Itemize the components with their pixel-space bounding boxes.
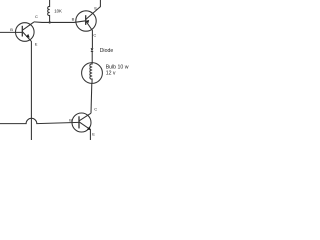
svg-text:C: C xyxy=(94,107,97,112)
svg-text:C: C xyxy=(93,33,96,38)
svg-text:12 v: 12 v xyxy=(106,70,116,76)
svg-text:C: C xyxy=(35,14,38,19)
svg-text:B: B xyxy=(69,118,72,123)
svg-text:10K: 10K xyxy=(54,9,62,14)
svg-text:B: B xyxy=(72,16,75,21)
svg-text:B: B xyxy=(10,27,13,32)
svg-text:E: E xyxy=(35,41,38,46)
svg-text:E: E xyxy=(94,6,97,11)
svg-text:E: E xyxy=(92,132,95,137)
svg-text:Diode: Diode xyxy=(100,48,114,54)
